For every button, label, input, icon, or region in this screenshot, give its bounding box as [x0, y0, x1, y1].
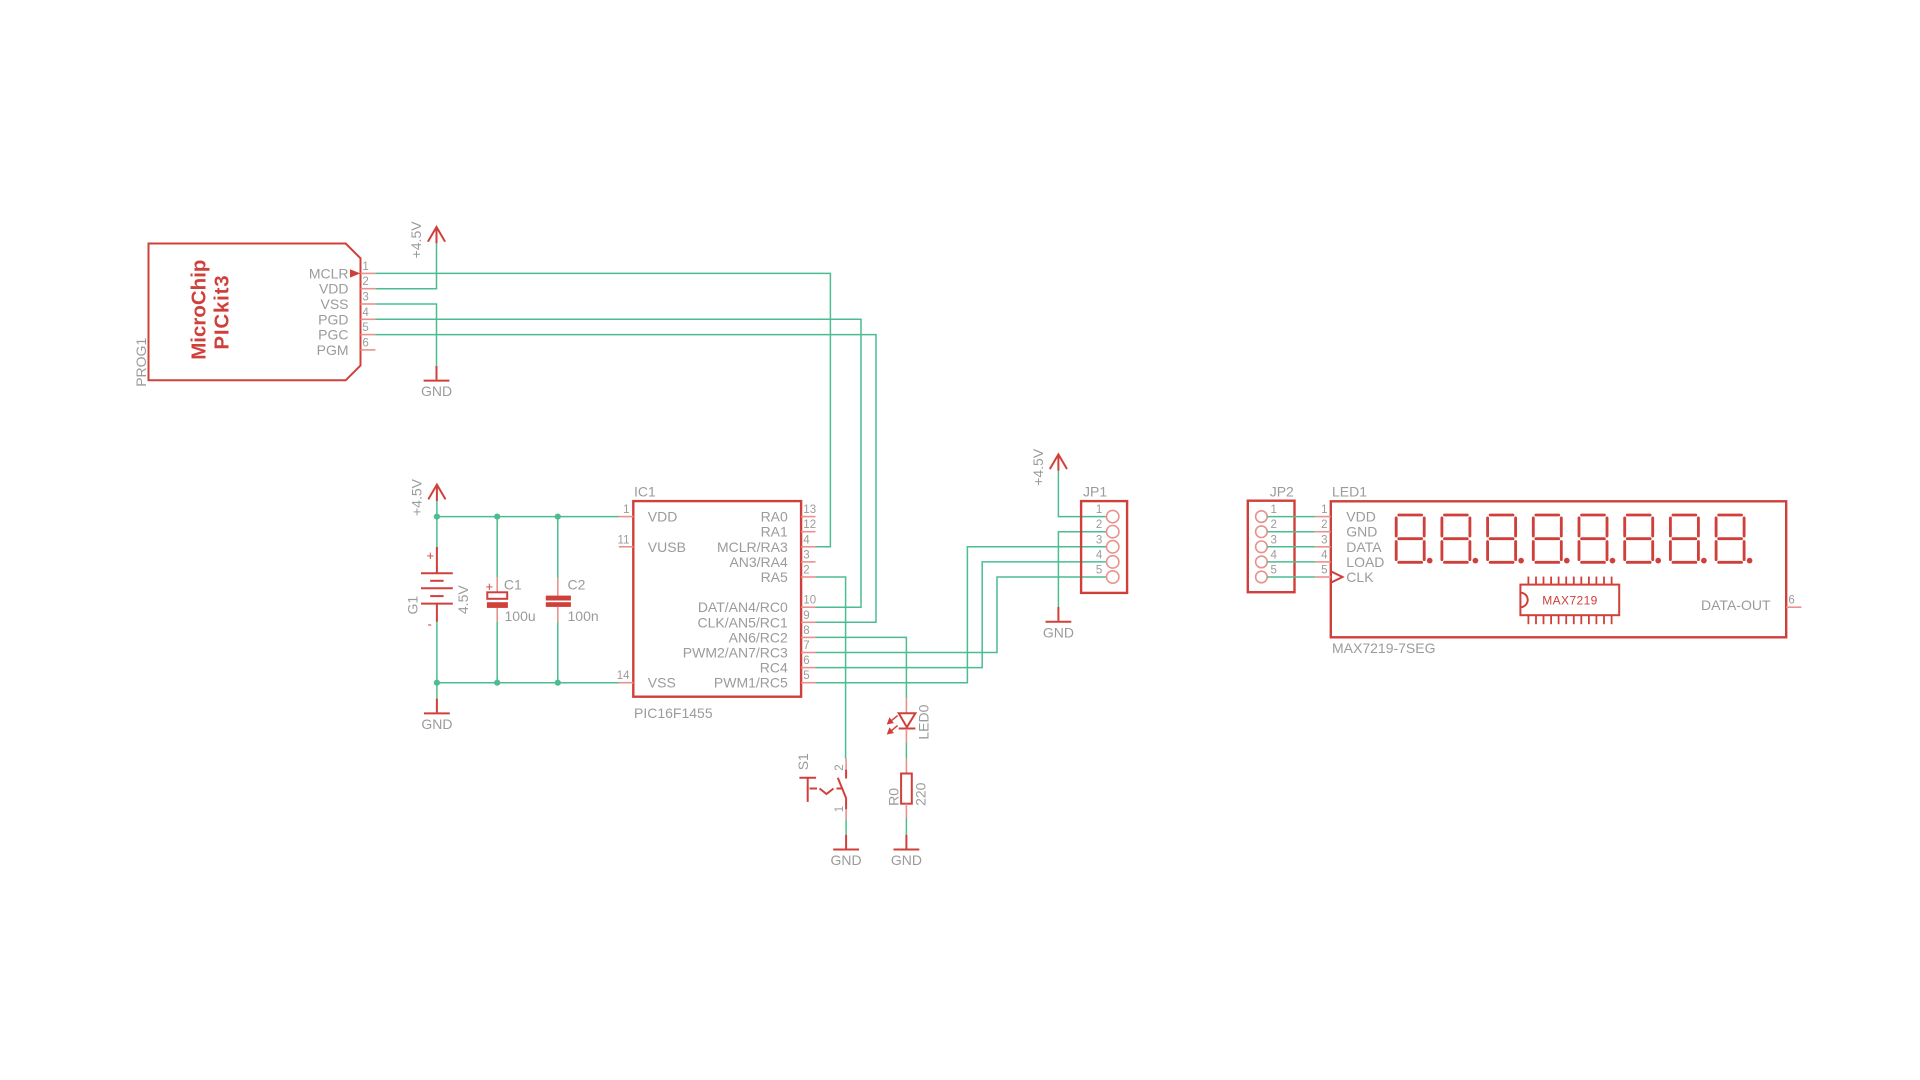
svg-text:6: 6	[362, 337, 368, 349]
7-segment digit 7	[1670, 515, 1706, 563]
svg-text:1: 1	[1271, 504, 1277, 516]
svg-text:MCLR/RA3: MCLR/RA3	[717, 539, 788, 555]
LED1 pin 4 LOAD	[1315, 549, 1384, 570]
svg-text:AN6/RC2: AN6/RC2	[729, 629, 788, 645]
svg-text:C1: C1	[504, 577, 522, 593]
svg-text:RA1: RA1	[761, 524, 788, 540]
wire +4.5V to VDD rail	[436, 501, 438, 517]
wire GND rail battery to IC1 VSS pin14	[437, 682, 619, 684]
supply +4.5V symbol near PROG1	[408, 221, 445, 259]
svg-text:RC4: RC4	[760, 660, 788, 676]
svg-text:IC1: IC1	[634, 484, 656, 500]
connector PROG1 MicroChip PICkit3 outline	[133, 244, 361, 387]
svg-text:VUSB: VUSB	[648, 539, 686, 555]
ground GND below battery	[421, 699, 452, 732]
LED1 pin 1 VDD	[1315, 504, 1376, 525]
IC1 pin 4 MCLR/RA3	[717, 534, 815, 555]
7-segment digit 8	[1716, 515, 1752, 563]
svg-text:PWM1/RC5: PWM1/RC5	[714, 675, 788, 691]
svg-text:2: 2	[803, 565, 809, 577]
wire JP1 pin2 to GND	[1058, 532, 1106, 607]
svg-text:DATA: DATA	[1346, 539, 1382, 555]
svg-text:+4.5V: +4.5V	[409, 478, 425, 516]
IC1 pin 5 PWM1/RC5	[714, 670, 816, 691]
wire R0 to GND	[905, 818, 907, 835]
svg-text:5: 5	[362, 322, 368, 334]
resistor R0 220	[886, 759, 929, 818]
svg-text:C2: C2	[568, 577, 586, 593]
svg-text:PWM2/AN7/RC3: PWM2/AN7/RC3	[683, 645, 788, 661]
LED1 pin 3 DATA	[1315, 534, 1382, 555]
svg-text:5: 5	[1096, 565, 1102, 577]
svg-text:-: -	[428, 617, 432, 632]
svg-text:3: 3	[1096, 534, 1102, 546]
svg-text:CLK/AN5/RC1: CLK/AN5/RC1	[698, 614, 788, 630]
svg-text:220: 220	[913, 782, 929, 806]
IC1 pin 9 CLK/AN5/RC1	[698, 610, 816, 631]
wire C2 bottom to rail	[557, 622, 559, 683]
JP2 pin 3 pad	[1256, 534, 1277, 552]
svg-text:MCLR: MCLR	[309, 265, 349, 281]
svg-text:PGM: PGM	[317, 342, 349, 358]
svg-text:DATA-OUT: DATA-OUT	[1701, 597, 1771, 613]
IC1 pin 7 PWM2/AN7/RC3	[683, 640, 816, 661]
IC1 pin 6 RC4	[760, 655, 816, 676]
svg-text:+4.5V: +4.5V	[1030, 448, 1046, 486]
JP1 pin 1 pad	[1096, 504, 1119, 523]
svg-text:4: 4	[803, 534, 810, 546]
ground GND below R0	[891, 835, 922, 868]
svg-text:VDD: VDD	[319, 281, 349, 297]
svg-text:4: 4	[362, 307, 369, 319]
svg-text:JP1: JP1	[1083, 484, 1107, 500]
PROG1 pin 4 PGD	[318, 307, 375, 328]
svg-text:9: 9	[803, 610, 809, 622]
svg-text:2: 2	[834, 764, 846, 770]
wire PWM2/AN7/RC3 pin7 to JP1 pin5	[816, 577, 1107, 653]
JP2 pin 5 pad	[1256, 565, 1277, 583]
svg-text:VDD: VDD	[1346, 509, 1376, 525]
svg-text:+4.5V: +4.5V	[408, 221, 424, 259]
svg-text:LED1: LED1	[1332, 484, 1367, 500]
IC1 pin 1 VDD	[619, 504, 677, 525]
connector JP2 header	[1248, 484, 1295, 593]
ground GND below PROG1	[421, 366, 452, 399]
wire PGD net PROG1 pin4 to IC1 DAT/AN4/RC0	[375, 319, 861, 607]
svg-text:1: 1	[1321, 504, 1327, 516]
svg-text:GND: GND	[891, 852, 922, 868]
svg-text:JP2: JP2	[1270, 484, 1294, 500]
svg-text:PICkit3: PICkit3	[211, 274, 234, 349]
LED1 CLK clock wedge	[1331, 571, 1343, 582]
IC1 pin 11 VUSB	[618, 534, 686, 555]
svg-text:4.5V: 4.5V	[455, 585, 471, 614]
svg-text:+: +	[486, 579, 494, 594]
svg-text:100n: 100n	[568, 608, 599, 624]
svg-text:MicroChip: MicroChip	[188, 260, 211, 360]
PROG1 pin 1 MCLR	[309, 261, 376, 282]
7-segment digit 5	[1579, 515, 1615, 563]
wire JP2 pin 4 to LED1	[1267, 561, 1315, 563]
JP1 pin 4 pad	[1096, 549, 1119, 568]
IC1 pin 14 VSS	[617, 670, 676, 691]
JP1 pin 2 pad	[1096, 519, 1119, 538]
svg-text:2: 2	[1096, 519, 1102, 531]
svg-text:CLK: CLK	[1346, 569, 1374, 585]
wire C1 bottom to rail	[496, 622, 498, 683]
svg-text:1: 1	[362, 261, 368, 273]
svg-text:PROG1: PROG1	[133, 338, 149, 387]
junction dots on supply rails	[434, 514, 440, 520]
svg-text:DAT/AN4/RC0: DAT/AN4/RC0	[698, 599, 788, 615]
svg-text:4: 4	[1321, 549, 1328, 561]
LED1 pin 6 DATA-OUT	[1701, 595, 1801, 613]
svg-text:VDD: VDD	[648, 509, 678, 525]
PROG1 pin 3 VSS	[320, 292, 375, 313]
svg-text:8: 8	[803, 625, 809, 637]
svg-text:LOAD: LOAD	[1346, 554, 1384, 570]
svg-text:1: 1	[1096, 504, 1102, 516]
wire RA5 pin2 to switch S1	[816, 577, 846, 759]
svg-text:3: 3	[1321, 534, 1327, 546]
wire JP2 pin 5 to LED1	[1267, 576, 1315, 578]
svg-text:GND: GND	[421, 383, 452, 399]
7-segment digit 1	[1396, 515, 1432, 563]
wire JP2 pin 1 to LED1	[1267, 516, 1315, 518]
LED LED0	[888, 698, 931, 743]
capacitor C1 100u polarized	[486, 577, 536, 625]
capacitor C2 100n	[546, 577, 599, 625]
wire +4.5V to JP1 pin1	[1058, 471, 1106, 517]
svg-text:R0: R0	[886, 788, 902, 806]
7-segment digit 2	[1442, 515, 1478, 563]
svg-text:3: 3	[1271, 534, 1277, 546]
MAX7219 package pins	[1528, 577, 1611, 625]
svg-text:2: 2	[1321, 519, 1327, 531]
7-segment digit 3	[1488, 515, 1524, 563]
svg-text:10: 10	[803, 595, 816, 607]
supply +4.5V symbol near JP1	[1030, 448, 1067, 486]
svg-text:LED0: LED0	[915, 704, 931, 739]
connector JP1 header	[1081, 484, 1127, 593]
IC1 pin 12 RA1	[761, 519, 817, 540]
svg-text:RA0: RA0	[761, 509, 788, 525]
svg-text:14: 14	[617, 670, 630, 682]
ground GND below JP1	[1043, 607, 1074, 640]
ground GND below S1	[831, 835, 862, 868]
svg-text:G1: G1	[405, 596, 421, 615]
wire battery - terminal to rail	[436, 622, 438, 683]
wire RC4 pin6 to JP1 pin4	[816, 562, 1107, 668]
JP2 pin 1 pad	[1256, 504, 1277, 522]
svg-text:6: 6	[1788, 595, 1794, 607]
svg-text:VSS: VSS	[648, 675, 676, 691]
svg-text:PIC16F1455: PIC16F1455	[634, 705, 713, 721]
IC drawing MAX7219 inside LED1	[1520, 585, 1619, 616]
svg-text:6: 6	[803, 655, 809, 667]
switch S1	[795, 753, 846, 819]
IC1 pin 13 RA0	[761, 504, 817, 525]
wire rail to battery + terminal	[436, 517, 438, 547]
svg-text:PGD: PGD	[318, 311, 348, 327]
svg-text:MAX7219-7SEG: MAX7219-7SEG	[1332, 640, 1436, 656]
IC1 pin 10 DAT/AN4/RC0	[698, 595, 816, 616]
svg-text:RA5: RA5	[761, 569, 788, 585]
svg-text:13: 13	[803, 504, 816, 516]
svg-text:GND: GND	[1346, 524, 1377, 540]
svg-text:11: 11	[618, 534, 630, 546]
wire JP2 pin 3 to LED1	[1267, 546, 1315, 548]
svg-text:5: 5	[1321, 565, 1327, 577]
svg-text:5: 5	[1271, 565, 1277, 577]
svg-text:1: 1	[623, 504, 629, 516]
IC1 pin 3 AN3/RA4	[729, 549, 815, 570]
wire S1 pin1 to GND	[845, 819, 847, 834]
JP1 pin 5 pad	[1096, 565, 1119, 584]
wire JP2 pin 2 to LED1	[1267, 531, 1315, 533]
7-segment digit 4	[1533, 515, 1569, 563]
svg-text:+: +	[427, 548, 435, 563]
JP2 pin 4 pad	[1256, 549, 1278, 567]
svg-text:GND: GND	[1043, 624, 1074, 640]
wire PROG1 VSS pin 3 to GND	[375, 304, 436, 366]
wire PWM1/RC5 pin5 to JP1 pin3	[816, 547, 1107, 683]
svg-text:1: 1	[834, 806, 846, 812]
svg-text:4: 4	[1271, 549, 1278, 561]
PROG1 pin 5 PGC	[318, 322, 375, 343]
JP1 pin 3 pad	[1096, 534, 1119, 553]
wire rail to C1 top	[496, 517, 498, 578]
PROG1 MCLR input arrow	[350, 269, 360, 277]
svg-text:2: 2	[362, 276, 368, 288]
battery G1 4.5V	[405, 547, 471, 632]
svg-text:AN3/RA4: AN3/RA4	[729, 554, 788, 570]
svg-text:3: 3	[362, 292, 368, 304]
display module LED1 MAX7219-7SEG outline	[1331, 484, 1786, 657]
svg-text:GND: GND	[421, 716, 452, 732]
svg-text:4: 4	[1096, 549, 1103, 561]
svg-text:VSS: VSS	[320, 296, 348, 312]
PROG1 pin 2 VDD	[319, 276, 375, 297]
svg-text:3: 3	[803, 549, 809, 561]
IC1 pin 8 AN6/RC2	[729, 625, 816, 646]
wire PGC net PROG1 pin5 to IC1 CLK/AN5/RC1	[375, 335, 876, 623]
microcontroller IC1 PIC16F1455 body	[633, 484, 801, 722]
svg-text:S1: S1	[795, 753, 811, 770]
svg-text:MAX7219: MAX7219	[1542, 594, 1598, 608]
svg-text:PGC: PGC	[318, 327, 348, 343]
7-segment digit 6	[1625, 515, 1661, 563]
wire +4.5V to PROG1 VDD pin 2	[375, 243, 436, 288]
svg-text:7: 7	[803, 640, 809, 652]
wire rail to GND symbol	[436, 683, 438, 699]
PROG1 pin 6 PGM	[317, 337, 376, 358]
svg-text:GND: GND	[831, 852, 862, 868]
wire VDD rail battery to IC1 pin1	[437, 516, 619, 518]
supply +4.5V symbol above battery	[409, 478, 446, 516]
svg-text:12: 12	[803, 519, 816, 531]
wire MCLR net PROG1 pin1 to IC1 MCLR/RA3	[375, 273, 830, 546]
wire AN6/RC2 pin8 to LED0	[816, 637, 907, 697]
wire rail to C2 top	[557, 517, 559, 579]
LED1 pin 2 GND	[1315, 519, 1377, 540]
svg-text:5: 5	[803, 670, 809, 682]
svg-text:100u: 100u	[505, 608, 536, 624]
LED1 pin 5 CLK	[1315, 565, 1374, 586]
wire LED0 cathode to R0	[905, 743, 907, 759]
JP2 pin 2 pad	[1256, 519, 1277, 537]
IC1 pin 2 RA5	[761, 565, 816, 586]
svg-text:2: 2	[1271, 519, 1277, 531]
